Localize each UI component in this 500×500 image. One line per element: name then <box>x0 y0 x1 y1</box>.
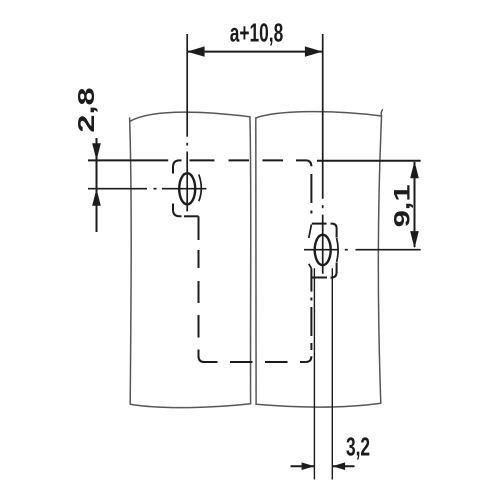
right pad: right arc <box>337 238 339 262</box>
dashed body outline: bottom-left corner <box>199 350 205 363</box>
right pad: upper-right corner <box>331 224 337 238</box>
left panel (broken view) <box>130 112 251 408</box>
svg-text:3,2: 3,2 <box>346 432 370 461</box>
svg-text:9,1: 9,1 <box>390 184 415 227</box>
extension line top (9,1) <box>317 160 421 162</box>
arrowhead down (2,8) <box>92 143 101 160</box>
arrowhead right (a+10,8) <box>305 46 323 56</box>
arrowhead right-pointing (3,2) <box>302 462 315 470</box>
right pad: left lower slant <box>309 264 312 269</box>
right pad: bottom edge <box>312 277 327 279</box>
dashed body outline: top edge <box>190 159 306 161</box>
svg-text:a+10,8: a+10,8 <box>230 18 284 47</box>
dimension text a+10,8 <box>230 18 284 47</box>
centre line of right hole (horizontal) <box>304 249 421 251</box>
dashed body outline: bottom edge <box>205 361 306 363</box>
arrowhead left-pointing (3,2) <box>332 462 345 470</box>
dashed body outline: right edge <box>310 174 312 350</box>
arrowhead down (9,1) <box>410 231 419 248</box>
extension / centre line of right hole (vertical) <box>322 34 324 274</box>
right pad: left upper slant <box>309 225 312 239</box>
dashed body outline: left edge <box>198 216 200 337</box>
dimension line 2,8 (vertical) <box>96 138 98 232</box>
right pad: lower-right corner <box>331 263 337 278</box>
extension / centre line of left hole (vertical) <box>186 34 188 211</box>
dimension text 2,8 (rotated) <box>72 87 98 132</box>
dimension line right part (3,2) <box>332 465 354 467</box>
dimension text 9,1 (rotated) <box>390 184 415 227</box>
right pad: left lower edge <box>310 268 312 291</box>
dimension line 9,1 (vertical) <box>414 162 416 247</box>
arrowhead up (2,8) <box>92 189 101 206</box>
dimension line left part (3,2) <box>291 465 315 467</box>
dimension line a+10,8 <box>187 51 323 53</box>
right pad: top edge <box>312 223 327 225</box>
extension line top (2,8) <box>88 159 168 161</box>
left hole <box>179 173 195 204</box>
left pad: lower-left corner <box>173 204 182 217</box>
left pad: right arc <box>199 175 202 202</box>
arrowhead up (9,1) <box>410 161 419 178</box>
left pad: upper-left corner <box>173 160 182 173</box>
centre line of left hole (horizontal) <box>88 188 207 190</box>
dashed body outline: bottom-right corner <box>306 356 312 362</box>
extension line right (3,2) <box>331 268 333 479</box>
dashed body outline: top-right corner <box>306 160 312 166</box>
right hole <box>315 235 331 265</box>
arrowhead left (a+10,8) <box>187 46 205 56</box>
svg-text:2,8: 2,8 <box>72 87 98 132</box>
extension line left (3,2) <box>313 268 315 479</box>
right panel (broken view) <box>256 110 383 407</box>
left pad: bottom edge to body <box>184 215 199 217</box>
dimension text 3,2 <box>346 432 370 461</box>
